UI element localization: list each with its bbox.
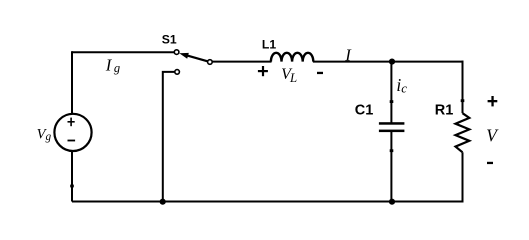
svg-text:S1: S1	[162, 33, 177, 47]
node junction dot at capacitor tap	[389, 59, 395, 65]
svg-text:ic: ic	[396, 75, 407, 96]
resistor plus polarity mark	[488, 96, 498, 106]
svg-text:V: V	[486, 125, 499, 145]
switch S1 common pole contact	[208, 60, 213, 65]
svg-text:C1: C1	[355, 102, 374, 118]
capacitor C1 top plate	[379, 122, 405, 125]
svg-text:Vg: Vg	[37, 126, 52, 143]
svg-text:R1: R1	[435, 102, 454, 118]
joint nub on left lower wire	[70, 185, 74, 188]
resistor minus polarity mark	[487, 162, 493, 164]
switch S1 blade arrowhead	[179, 53, 189, 59]
wire top-left horizontal from source to switch	[72, 51, 175, 53]
switch S1 lower throw contact	[175, 70, 180, 75]
wire right vertical upper (to resistor)	[462, 61, 464, 114]
svg-text:L1: L1	[262, 37, 276, 51]
switch S1 blade	[187, 55, 208, 61]
wire right vertical lower (resistor to bottom rail)	[462, 152, 464, 201]
joint nub on right vertical wire	[461, 99, 465, 102]
wire left vertical lower (source bottom lead)	[71, 151, 73, 202]
capacitor C1 bottom plate	[379, 130, 405, 133]
wire left vertical upper (source top lead)	[71, 51, 73, 114]
voltage source minus sign	[68, 140, 76, 142]
inductor plus polarity mark	[258, 66, 268, 76]
switch S1 top throw contact	[174, 50, 179, 55]
joint nub on capacitor upper lead	[390, 100, 394, 103]
voltage source plus sign	[68, 118, 75, 127]
node junction dot capacitor branch on bottom rail	[389, 199, 395, 205]
resistor R1 zigzag	[456, 113, 470, 152]
inductor minus polarity mark	[317, 72, 323, 74]
node junction dot switch branch on bottom rail	[160, 199, 166, 205]
wire lower throw down to bottom rail	[163, 72, 175, 202]
wire capacitor upper lead	[390, 62, 392, 123]
voltage source Vg circle	[54, 114, 91, 151]
svg-text:VL: VL	[281, 66, 297, 85]
svg-text:Ig: Ig	[105, 56, 120, 76]
wire capacitor lower lead	[390, 132, 392, 202]
wire from switch common to inductor	[212, 61, 271, 63]
joint nub on capacitor lower lead	[390, 149, 394, 152]
inductor L1	[271, 53, 313, 62]
wire bottom rail	[72, 201, 464, 203]
wire from inductor to right corner	[313, 61, 464, 63]
